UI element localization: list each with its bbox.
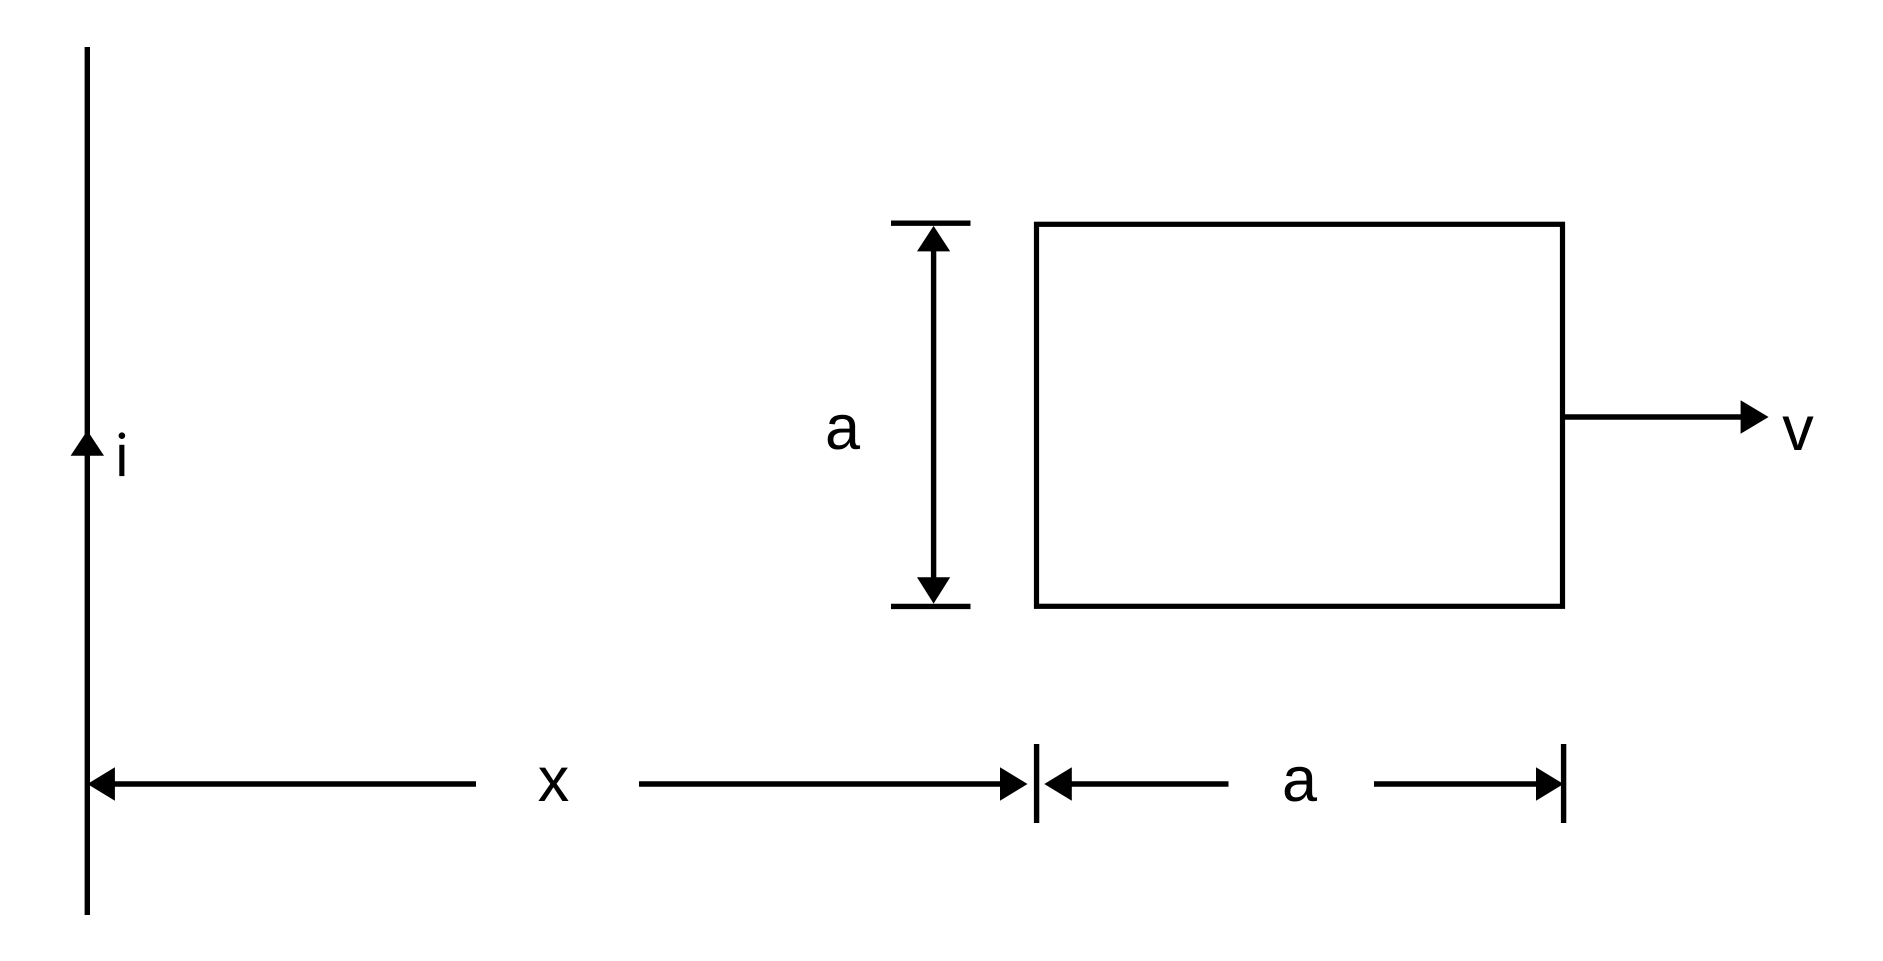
svg-text:x: x [538,745,570,815]
svg-text:a: a [825,393,861,463]
svg-text:a: a [1282,745,1318,815]
svg-text:v: v [1782,394,1814,464]
